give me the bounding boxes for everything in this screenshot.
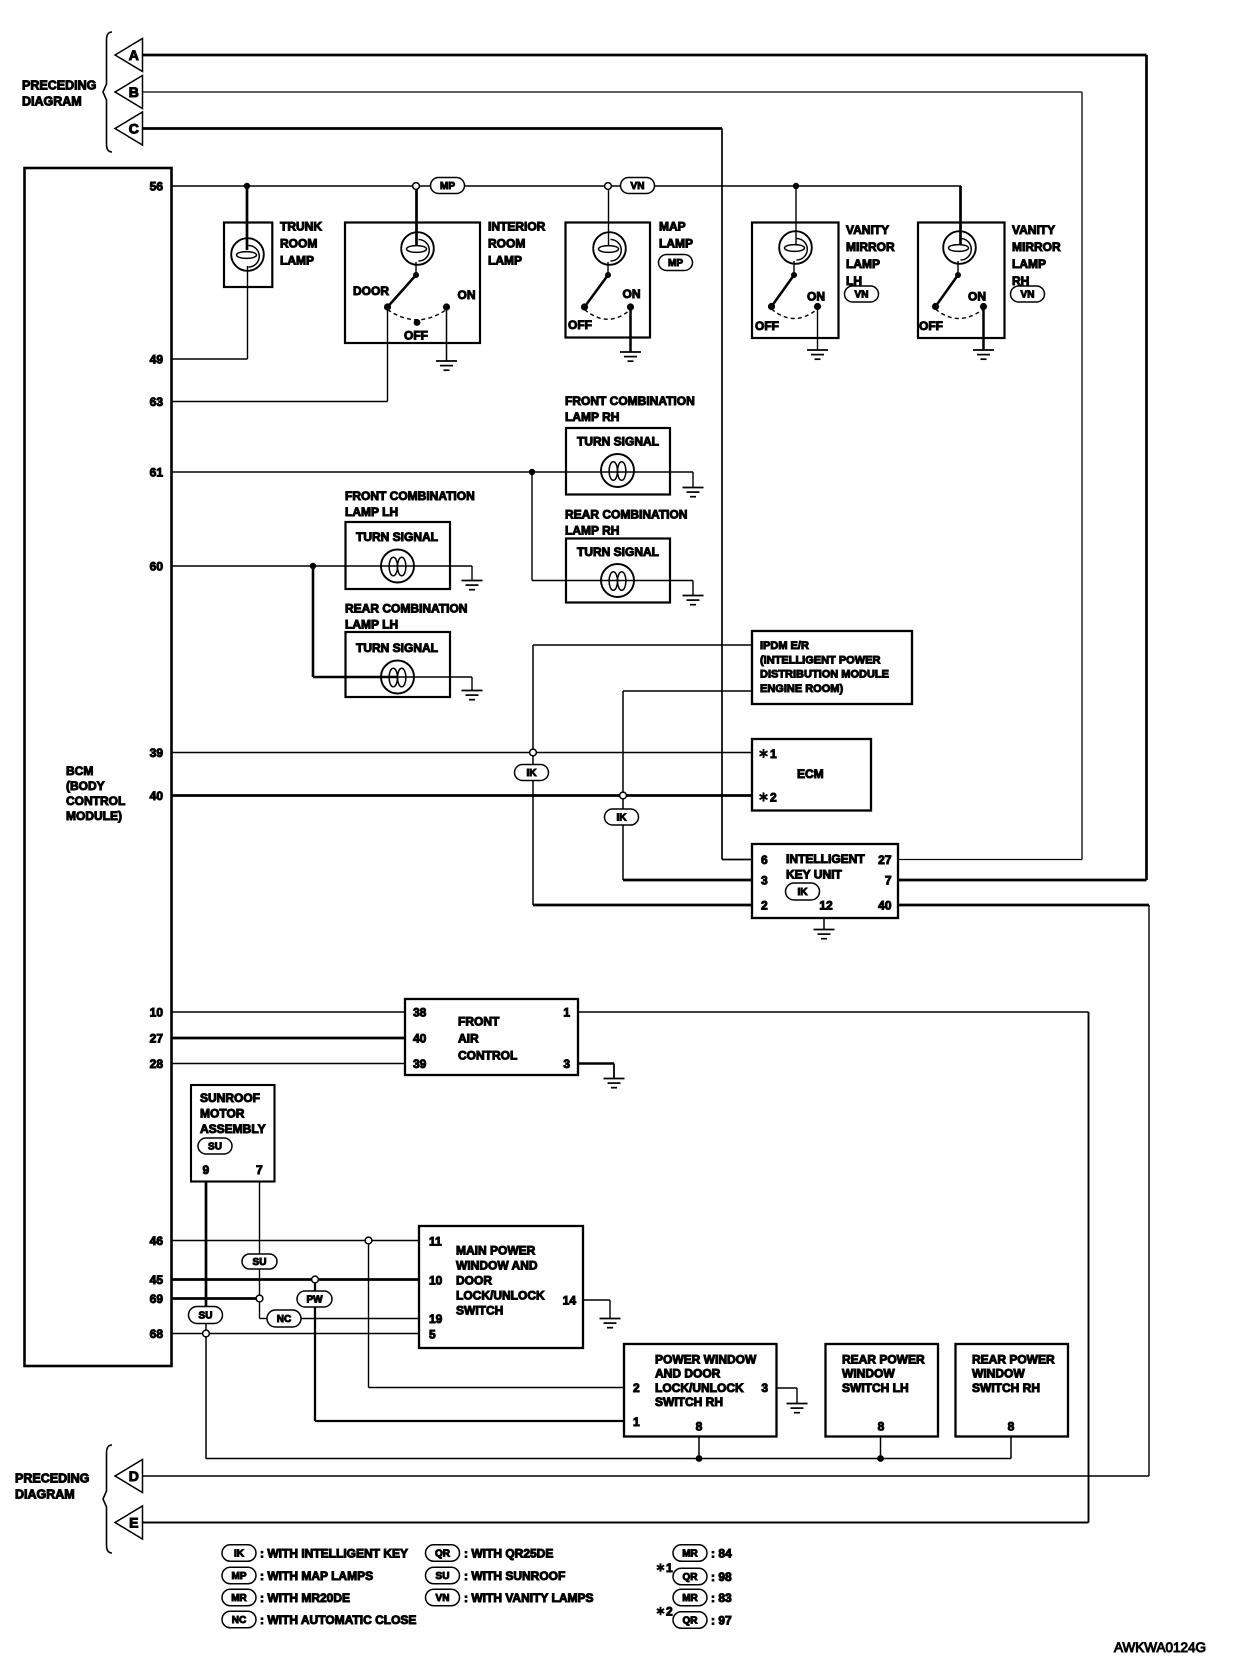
svg-text:BCM: BCM: [66, 764, 93, 778]
svg-text:PW: PW: [306, 1295, 323, 1306]
svg-text:INTELLIGENT: INTELLIGENT: [786, 852, 865, 866]
svg-text:REAR POWER: REAR POWER: [842, 1353, 925, 1367]
svg-text:1: 1: [770, 747, 777, 761]
svg-text:63: 63: [150, 395, 164, 409]
svg-text:10: 10: [150, 1005, 164, 1019]
svg-text:: WITH VANITY LAMPS: : WITH VANITY LAMPS: [464, 1591, 594, 1605]
svg-text:11: 11: [429, 1235, 442, 1249]
svg-text:PRECEDING: PRECEDING: [15, 1472, 89, 1486]
svg-text:40: 40: [878, 899, 892, 913]
svg-text:NC: NC: [232, 1615, 246, 1626]
svg-text:ENGINE ROOM): ENGINE ROOM): [760, 683, 843, 695]
svg-text:LAMP RH: LAMP RH: [565, 410, 619, 424]
svg-text:SU: SU: [253, 1257, 267, 1268]
svg-text:10: 10: [429, 1274, 443, 1288]
svg-text:TURN SIGNAL: TURN SIGNAL: [356, 641, 438, 655]
svg-text:B: B: [129, 84, 139, 100]
svg-text:FRONT COMBINATION: FRONT COMBINATION: [565, 394, 695, 408]
svg-text:ROOM: ROOM: [280, 237, 317, 251]
svg-text:68: 68: [150, 1327, 164, 1341]
svg-text:MAP: MAP: [659, 220, 686, 234]
svg-text:LAMP LH: LAMP LH: [345, 505, 398, 519]
svg-text:VANITY: VANITY: [1012, 223, 1055, 237]
svg-text:ROOM: ROOM: [488, 237, 525, 251]
svg-text:QR: QR: [683, 1616, 699, 1627]
svg-text:LOCK/UNLOCK: LOCK/UNLOCK: [655, 1381, 744, 1395]
svg-text:8: 8: [878, 1420, 885, 1434]
svg-text:2: 2: [770, 791, 777, 805]
svg-text:6: 6: [761, 853, 768, 867]
svg-text:38: 38: [413, 1006, 427, 1020]
svg-text:VANITY: VANITY: [846, 223, 889, 237]
svg-text:(INTELLIGENT POWER: (INTELLIGENT POWER: [760, 655, 880, 667]
svg-text:8: 8: [1008, 1420, 1015, 1434]
svg-text:WINDOW AND: WINDOW AND: [456, 1259, 538, 1273]
svg-text:ECM: ECM: [797, 767, 824, 781]
svg-text:REAR POWER: REAR POWER: [972, 1353, 1055, 1367]
svg-text:SU: SU: [208, 1142, 222, 1153]
svg-text:TURN SIGNAL: TURN SIGNAL: [356, 530, 438, 544]
svg-text:9: 9: [203, 1163, 210, 1177]
svg-text:IK: IK: [527, 768, 538, 779]
svg-text:AND DOOR: AND DOOR: [655, 1367, 721, 1381]
svg-text:SWITCH LH: SWITCH LH: [842, 1381, 909, 1395]
svg-text:7: 7: [885, 874, 892, 888]
svg-text:LAMP: LAMP: [846, 257, 880, 271]
svg-text:: 97: : 97: [711, 1613, 732, 1627]
svg-text:AIR: AIR: [458, 1032, 479, 1046]
svg-text:VN: VN: [1021, 290, 1035, 301]
svg-text:LAMP: LAMP: [488, 254, 522, 268]
svg-text:OFF: OFF: [404, 329, 428, 343]
svg-text:OFF: OFF: [568, 318, 592, 332]
svg-text:MP: MP: [668, 258, 683, 269]
svg-text:MR: MR: [682, 1549, 698, 1560]
svg-text:ON: ON: [458, 288, 476, 302]
svg-text:QR: QR: [683, 1572, 699, 1583]
svg-text:: WITH SUNROOF: : WITH SUNROOF: [464, 1569, 565, 1583]
svg-text:ON: ON: [968, 290, 986, 304]
svg-text:14: 14: [563, 1294, 577, 1308]
svg-text:39: 39: [150, 746, 164, 760]
svg-text:AWKWA0124G: AWKWA0124G: [1114, 1640, 1206, 1655]
svg-text:MP: MP: [440, 181, 455, 192]
svg-text:46: 46: [150, 1234, 164, 1248]
svg-text:1: 1: [666, 1561, 673, 1575]
svg-text:TURN SIGNAL: TURN SIGNAL: [577, 435, 659, 449]
svg-text:45: 45: [150, 1273, 164, 1287]
svg-text:TURN SIGNAL: TURN SIGNAL: [577, 545, 659, 559]
svg-text:: WITH INTELLIGENT KEY: : WITH INTELLIGENT KEY: [260, 1546, 408, 1560]
svg-text:27: 27: [878, 853, 892, 867]
svg-text:7: 7: [256, 1163, 263, 1177]
svg-text:CONTROL: CONTROL: [458, 1049, 517, 1063]
svg-text:A: A: [129, 47, 139, 63]
svg-text:INTERIOR: INTERIOR: [488, 220, 546, 234]
svg-text:19: 19: [429, 1312, 443, 1326]
svg-text:VN: VN: [436, 1593, 450, 1604]
svg-text:FRONT COMBINATION: FRONT COMBINATION: [345, 489, 475, 503]
svg-text:: WITH AUTOMATIC CLOSE: : WITH AUTOMATIC CLOSE: [260, 1613, 416, 1627]
svg-text:: 84: : 84: [711, 1546, 732, 1560]
svg-text:POWER WINDOW: POWER WINDOW: [655, 1353, 757, 1367]
svg-text:3: 3: [761, 874, 768, 888]
svg-text:SU: SU: [436, 1571, 450, 1582]
svg-text:VN: VN: [855, 290, 869, 301]
svg-text:CONTROL: CONTROL: [66, 794, 125, 808]
svg-text:SUNROOF: SUNROOF: [200, 1091, 260, 1105]
svg-text:SWITCH RH: SWITCH RH: [655, 1395, 723, 1409]
svg-text:REAR COMBINATION: REAR COMBINATION: [345, 602, 467, 616]
svg-text:OFF: OFF: [919, 319, 943, 333]
svg-text:SWITCH RH: SWITCH RH: [972, 1381, 1040, 1395]
svg-text:QR: QR: [435, 1549, 451, 1560]
svg-text:1: 1: [633, 1415, 640, 1429]
svg-text:WINDOW: WINDOW: [842, 1367, 895, 1381]
svg-text:DIAGRAM: DIAGRAM: [22, 95, 82, 109]
svg-text:2: 2: [633, 1381, 640, 1395]
svg-text:DIAGRAM: DIAGRAM: [15, 1488, 75, 1502]
svg-text:40: 40: [150, 789, 164, 803]
svg-text:D: D: [129, 1468, 139, 1484]
svg-text:LAMP: LAMP: [659, 237, 693, 251]
svg-text:IPDM E/R: IPDM E/R: [760, 640, 809, 652]
svg-text:DOOR: DOOR: [353, 284, 389, 298]
svg-text:2: 2: [666, 1605, 673, 1619]
svg-text:NC: NC: [277, 1314, 291, 1325]
svg-text:KEY UNIT: KEY UNIT: [786, 868, 842, 882]
svg-text:IK: IK: [234, 1549, 245, 1560]
svg-text:61: 61: [150, 465, 164, 479]
svg-text:MOTOR: MOTOR: [200, 1107, 245, 1121]
svg-text:56: 56: [150, 179, 164, 193]
svg-text:E: E: [129, 1515, 138, 1531]
svg-text:LAMP RH: LAMP RH: [565, 524, 619, 538]
svg-text:LOCK/UNLOCK: LOCK/UNLOCK: [456, 1289, 545, 1303]
svg-text:40: 40: [413, 1032, 427, 1046]
svg-text:49: 49: [150, 352, 164, 366]
svg-text:3: 3: [563, 1057, 570, 1071]
svg-text:C: C: [129, 121, 139, 137]
svg-text:(BODY: (BODY: [66, 779, 105, 793]
svg-text:3: 3: [761, 1381, 768, 1395]
svg-text:1: 1: [563, 1006, 570, 1020]
svg-text:LAMP: LAMP: [280, 254, 314, 268]
svg-text:LAMP: LAMP: [1012, 257, 1046, 271]
svg-text:TRUNK: TRUNK: [280, 220, 322, 234]
svg-text:MIRROR: MIRROR: [1012, 240, 1061, 254]
svg-text:27: 27: [150, 1031, 164, 1045]
svg-text:MAIN POWER: MAIN POWER: [456, 1244, 536, 1258]
svg-text:28: 28: [150, 1057, 164, 1071]
svg-text:MIRROR: MIRROR: [846, 240, 895, 254]
svg-text:5: 5: [429, 1328, 436, 1342]
svg-text:MR: MR: [682, 1593, 698, 1604]
svg-text:2: 2: [761, 899, 768, 913]
svg-text:VN: VN: [631, 181, 645, 192]
svg-text:MP: MP: [232, 1571, 247, 1582]
svg-text:IK: IK: [617, 813, 628, 824]
svg-text:MR: MR: [231, 1593, 247, 1604]
svg-text:69: 69: [150, 1292, 164, 1306]
svg-text:WINDOW: WINDOW: [972, 1367, 1025, 1381]
svg-text:PRECEDING: PRECEDING: [22, 79, 96, 93]
svg-text:OFF: OFF: [755, 319, 779, 333]
svg-text:60: 60: [150, 559, 164, 573]
svg-text:: 83: : 83: [711, 1591, 732, 1605]
svg-text:39: 39: [413, 1057, 427, 1071]
svg-text:: WITH QR25DE: : WITH QR25DE: [464, 1546, 553, 1560]
svg-text:SU: SU: [199, 1311, 213, 1322]
svg-text:DOOR: DOOR: [456, 1274, 492, 1288]
svg-text:DISTRIBUTION MODULE: DISTRIBUTION MODULE: [760, 669, 889, 681]
svg-text:SWITCH: SWITCH: [456, 1304, 503, 1318]
svg-text:IK: IK: [798, 887, 809, 898]
svg-text:LAMP LH: LAMP LH: [345, 618, 398, 632]
svg-text:: 98: : 98: [711, 1570, 732, 1584]
svg-text:ASSEMBLY: ASSEMBLY: [200, 1122, 266, 1136]
svg-text:ON: ON: [807, 290, 825, 304]
svg-text:: WITH MR20DE: : WITH MR20DE: [260, 1591, 350, 1605]
svg-text:MODULE): MODULE): [66, 809, 122, 823]
svg-text:: WITH MAP LAMPS: : WITH MAP LAMPS: [260, 1569, 373, 1583]
svg-text:ON: ON: [623, 287, 641, 301]
svg-text:FRONT: FRONT: [458, 1015, 500, 1029]
svg-text:12: 12: [819, 899, 833, 913]
svg-text:REAR COMBINATION: REAR COMBINATION: [565, 508, 687, 522]
svg-text:8: 8: [696, 1420, 703, 1434]
